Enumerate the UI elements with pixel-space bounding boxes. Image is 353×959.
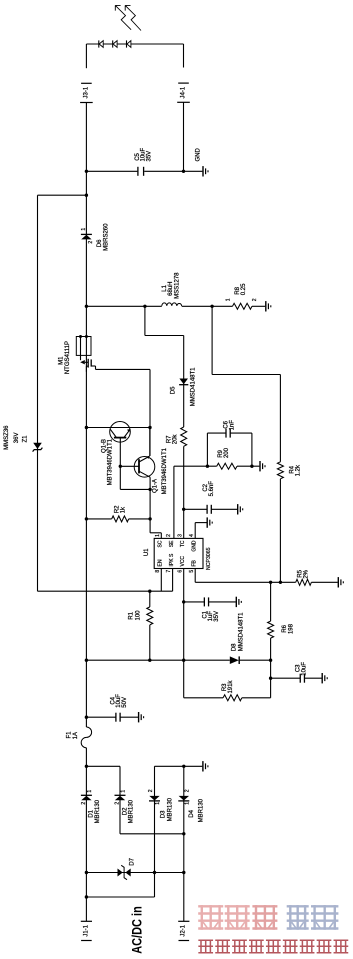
wire AC2 row	[120, 833, 184, 835]
wire D4/J2 column	[183, 766, 185, 921]
svg-text:MBR130: MBR130	[168, 797, 174, 821]
diode D4 MBR130	[178, 789, 204, 822]
LED light-emission arrow 1	[115, 5, 131, 29]
wire D5 branch jog	[144, 306, 146, 335]
svg-text:2: 2	[166, 534, 172, 537]
wire D2 column	[119, 766, 121, 834]
svg-text:1: 1	[184, 802, 190, 805]
wire gate to Q1	[96, 368, 151, 370]
svg-text:35V: 35V	[214, 611, 220, 622]
node D8/R6	[269, 659, 272, 662]
svg-text:3: 3	[177, 534, 183, 537]
watermark line 2	[199, 940, 347, 953]
svg-text:AC/DC in: AC/DC in	[130, 906, 145, 954]
zener Z1 MMSZ36 36V	[4, 425, 42, 452]
svg-text:Q1-A: Q1-A	[153, 479, 159, 493]
node VCC/C1	[182, 600, 185, 603]
LED D-C	[127, 40, 131, 47]
LED D-B	[113, 40, 117, 47]
node L1/D5-branch	[143, 305, 146, 308]
svg-text:36V: 36V	[14, 433, 20, 444]
wire D3 column	[154, 766, 156, 897]
node main/C4	[85, 716, 88, 719]
svg-text:F1: F1	[67, 731, 73, 739]
svg-text:50V: 50V	[122, 697, 128, 708]
node TC/C2	[182, 508, 185, 511]
wire pin7	[172, 569, 174, 592]
ground at C3	[322, 673, 327, 683]
svg-text:Z1: Z1	[22, 435, 28, 443]
wire left rail vertical	[37, 195, 39, 591]
diode D3 MBR130	[148, 789, 174, 821]
wire EN row	[38, 590, 173, 592]
wire SE net	[173, 466, 175, 538]
op-amp U1 NCP3065 (IC)	[154, 538, 203, 568]
svg-text:SE: SE	[169, 540, 175, 547]
svg-text:MMSZ36: MMSZ36	[4, 425, 10, 450]
capacitor C3 10uF	[271, 662, 322, 683]
wire main vertical lower	[85, 748, 87, 922]
node AC1/D3	[153, 871, 156, 874]
wire main vertical mid	[85, 355, 87, 727]
svg-text:6: 6	[177, 570, 183, 573]
wire Q1-B base stem	[119, 438, 121, 490]
svg-text:1: 1	[155, 802, 161, 805]
svg-text:MBR130: MBR130	[95, 799, 101, 823]
resistor R2 1k	[86, 505, 150, 522]
node FB/R4	[279, 581, 282, 584]
svg-text:VCC: VCC	[180, 556, 186, 567]
ground at R9/C6	[260, 461, 265, 471]
transistor M1 NTGS4111P (P-MOSFET)	[59, 335, 96, 374]
svg-text:SC: SC	[158, 540, 164, 547]
wire AC1 row (D7)	[86, 872, 183, 874]
svg-text:2%: 2%	[303, 569, 309, 578]
wire +V row	[86, 659, 229, 661]
svg-text:8: 8	[155, 570, 161, 573]
LED D-A	[99, 40, 103, 47]
transistor Q1-A MBT3946DW1T1	[134, 447, 168, 494]
svg-text:1: 1	[81, 228, 87, 231]
svg-text:GND: GND	[191, 540, 197, 552]
node main/897	[85, 895, 88, 898]
node C5 left	[85, 170, 88, 173]
node gate/Q1 junction	[148, 426, 151, 429]
node R2/SC	[148, 517, 151, 520]
TVS diode D7	[118, 857, 136, 879]
svg-text:D7: D7	[130, 857, 136, 865]
connector J1-1	[81, 921, 92, 940]
transistor Q1-B MBT3946DW1T1	[102, 422, 131, 486]
wire LED string top	[86, 43, 183, 45]
wire R8 to ground	[252, 305, 265, 307]
wire Q1-A collector down	[149, 477, 151, 533]
svg-text:MBT3946DW1T1: MBT3946DW1T1	[107, 438, 113, 485]
inductor L1 68uH MSS1278	[162, 272, 182, 306]
svg-text:J2-1: J2-1	[181, 924, 187, 936]
ground at R5	[338, 577, 343, 587]
svg-text:MMSD4148T1: MMSD4148T1	[239, 612, 245, 651]
node AC1 right	[182, 871, 185, 874]
capacitor C4 10uF 50V	[86, 694, 138, 722]
svg-text:EN: EN	[158, 559, 164, 566]
svg-text:J3-1: J3-1	[83, 86, 89, 98]
svg-text:200: 200	[224, 447, 230, 458]
svg-text:10uF: 10uF	[301, 662, 307, 676]
svg-text:D4: D4	[189, 809, 195, 817]
resistor R5 2%	[296, 569, 312, 585]
svg-text:2: 2	[81, 802, 87, 805]
wire gnd rail right	[155, 765, 203, 767]
node Q1 base/Q1-A base	[119, 465, 122, 468]
svg-text:1k: 1k	[121, 506, 127, 513]
wire R4 branch	[211, 306, 213, 374]
capacitor C1 1uF 35V	[184, 597, 236, 621]
wire pin5/FB	[194, 569, 196, 583]
wire Q1-A emitter up	[149, 428, 151, 456]
ground at pin 4	[207, 517, 212, 527]
node main/+V row	[85, 659, 88, 662]
svg-text:1nF: 1nF	[230, 420, 236, 431]
resistor R1 100	[129, 591, 153, 660]
svg-text:NCP3065: NCP3065	[206, 547, 212, 570]
svg-text:100: 100	[135, 610, 141, 621]
svg-text:IPK S: IPK S	[169, 553, 175, 566]
diode D1 MBR130	[81, 790, 101, 824]
svg-text:M1: M1	[59, 356, 65, 365]
resistor R3 191k	[184, 680, 271, 701]
node main/left-branch	[85, 194, 88, 197]
resistor R6 198	[268, 582, 295, 698]
ground at bridge	[203, 761, 208, 771]
svg-text:2: 2	[252, 298, 258, 301]
capacitor C2 5.6nF	[184, 481, 237, 514]
capacitor C5	[86, 147, 183, 175]
wire Q1-B row	[86, 427, 150, 429]
svg-text:191k: 191k	[228, 680, 234, 694]
svg-text:J4-1: J4-1	[180, 86, 186, 98]
svg-text:2: 2	[115, 802, 121, 805]
svg-text:U1: U1	[144, 548, 150, 556]
node Q1 collector/base-stem	[148, 488, 151, 491]
wire J3-1 stem / main vertical upper	[85, 103, 87, 337]
resistor R4 1.2k	[277, 462, 301, 479]
capacitor C6 1nF	[207, 420, 252, 467]
resistor R8 0.25	[225, 283, 258, 309]
svg-text:198: 198	[288, 623, 294, 634]
svg-text:J1-1: J1-1	[83, 924, 89, 936]
wire D5/R7 vertical	[183, 336, 185, 428]
resistor R9 200	[217, 447, 237, 469]
svg-text:D3: D3	[160, 810, 166, 818]
connector J2-1	[178, 921, 189, 940]
svg-text:2: 2	[148, 789, 154, 792]
svg-text:20k: 20k	[172, 434, 178, 445]
svg-text:1: 1	[155, 534, 161, 537]
wire pin4 to ground	[194, 523, 196, 539]
svg-text:GND: GND	[196, 148, 202, 162]
node C5 right	[182, 170, 185, 173]
wire +rail left	[86, 765, 120, 767]
svg-text:35V: 35V	[146, 151, 152, 162]
svg-text:1: 1	[87, 790, 93, 793]
ground at C4	[139, 712, 144, 722]
watermark line 1	[199, 906, 337, 928]
svg-text:2: 2	[88, 241, 94, 244]
svg-text:1: 1	[120, 790, 126, 793]
svg-text:D5: D5	[171, 386, 177, 394]
node L1/R4-branch	[210, 305, 213, 308]
node main/L1	[85, 305, 88, 308]
wire J1 to D3 column	[86, 896, 154, 898]
svg-text:1: 1	[225, 298, 231, 301]
svg-text:2: 2	[184, 789, 190, 792]
svg-text:1A: 1A	[73, 732, 79, 739]
ground at R8	[266, 301, 271, 311]
U1 pin numbers top	[155, 534, 195, 537]
svg-text:R6: R6	[282, 624, 288, 632]
wire FB row	[195, 581, 296, 583]
svg-text:0.25: 0.25	[241, 283, 247, 295]
U1 pin labels	[144, 540, 212, 570]
wire pin1 jog	[150, 532, 161, 534]
ground at C1	[236, 597, 241, 607]
node VCC/+V row	[182, 659, 185, 662]
node main/R2	[85, 517, 88, 520]
svg-text:68uH: 68uH	[168, 282, 174, 296]
node EN/R1	[148, 590, 151, 593]
connector J3-1	[80, 83, 93, 102]
node main/+rail	[85, 765, 88, 768]
node R1 bottom	[148, 659, 151, 662]
fuse F1 1A	[67, 727, 92, 748]
diode D8 MMSD4148T1	[230, 612, 245, 664]
svg-text:MBR130: MBR130	[198, 798, 204, 822]
svg-text:NTGS4111P: NTGS4111P	[65, 341, 71, 374]
node AC1/J1	[85, 871, 88, 874]
LED light-emission arrow 2	[125, 5, 141, 30]
svg-text:D1: D1	[89, 809, 95, 817]
node R9 left	[206, 465, 209, 468]
svg-text:D6: D6	[97, 239, 103, 247]
diode D5 MMSD4148T1	[171, 367, 197, 406]
node R9 right	[250, 465, 253, 468]
node AC2/J2	[182, 832, 185, 835]
node FB/R6	[269, 581, 272, 584]
wire J4-1 stem	[183, 102, 185, 171]
wire L1 row	[86, 305, 161, 307]
node main/Q1-B	[85, 426, 88, 429]
wire LED right drop	[183, 44, 185, 68]
wire pin6/VCC vertical	[183, 569, 185, 698]
svg-text:MSS1278: MSS1278	[174, 272, 180, 299]
connector J4-1	[177, 83, 190, 102]
U1 pin numbers bottom	[155, 570, 195, 573]
svg-text:TC: TC	[180, 540, 186, 547]
svg-text:MMSD4148T1: MMSD4148T1	[191, 367, 197, 406]
svg-text:FB: FB	[191, 559, 197, 566]
diode D6 MBRS260	[81, 223, 110, 251]
svg-text:R1: R1	[129, 611, 135, 619]
svg-text:MBR130: MBR130	[129, 799, 135, 823]
diode D2 MBR130	[115, 790, 135, 824]
node gnd-rail/D4	[182, 765, 185, 768]
svg-text:D8: D8	[231, 643, 237, 651]
resistor R7 20k	[167, 427, 187, 446]
ground at C2	[238, 504, 243, 514]
svg-text:5: 5	[189, 570, 195, 573]
wire pin8	[160, 569, 162, 592]
svg-text:MBT3946DW1T1: MBT3946DW1T1	[162, 447, 168, 494]
ground GND net at C5	[184, 148, 209, 177]
svg-text:1.2k: 1.2k	[295, 464, 301, 476]
svg-text:D2: D2	[122, 807, 128, 815]
svg-text:7: 7	[166, 570, 172, 573]
wire base to Q1-A	[120, 465, 139, 467]
svg-text:4: 4	[189, 534, 195, 537]
wire top branch to left rail	[38, 194, 87, 196]
svg-text:MBRS260: MBRS260	[103, 223, 109, 251]
wire LED left drop	[85, 44, 87, 68]
node R6/C3	[269, 677, 272, 680]
svg-text:5.6nF: 5.6nF	[209, 481, 215, 497]
